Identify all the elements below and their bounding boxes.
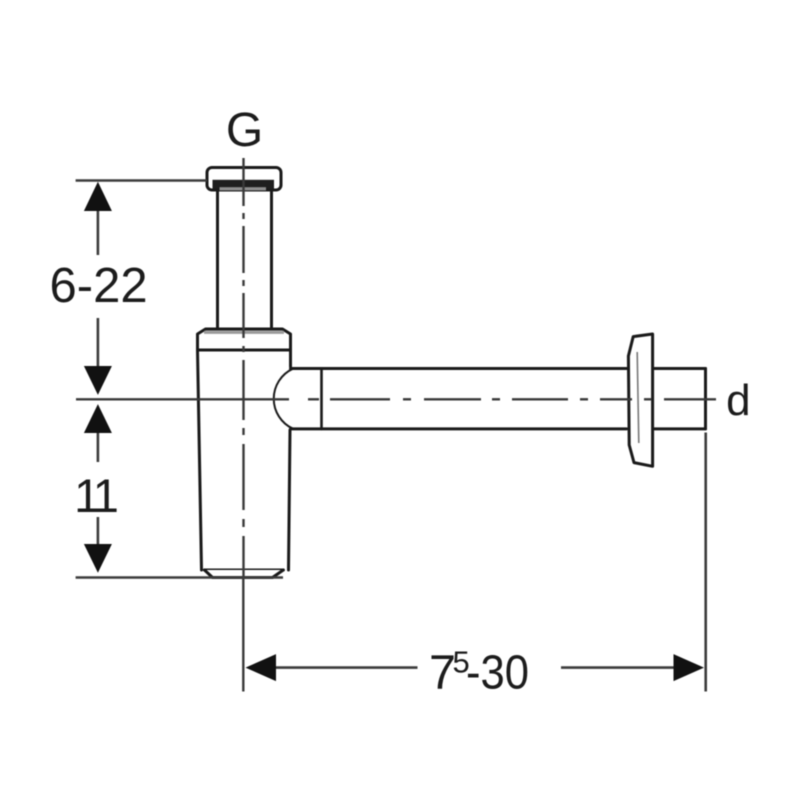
svg-text:6-22: 6-22 xyxy=(50,259,148,313)
svg-text:d: d xyxy=(726,376,750,425)
svg-text:11: 11 xyxy=(74,469,117,522)
svg-text:G: G xyxy=(226,104,263,157)
svg-text:-30: -30 xyxy=(466,646,529,700)
